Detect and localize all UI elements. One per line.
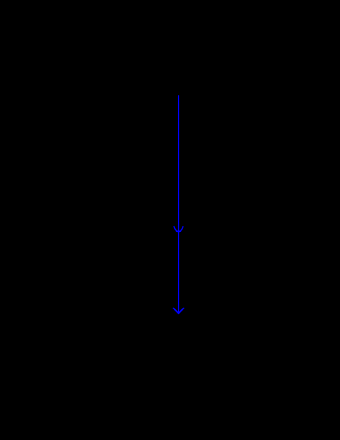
arrowhead: mid arrow tip at node B (points down) xyxy=(174,227,183,232)
arrowhead: end arrow tip at node C (points down) xyxy=(173,308,184,313)
wire: upper edge segment from node A down to node B xyxy=(178,95,180,231)
wire: lower edge segment from node B down to node C xyxy=(178,231,180,313)
